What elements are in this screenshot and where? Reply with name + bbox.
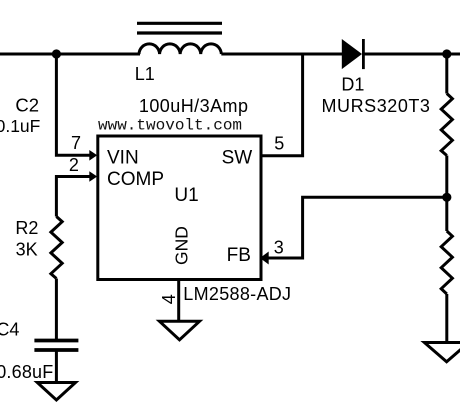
svg-text:0.68uF: 0.68uF: [0, 362, 53, 382]
ground (C4): [37, 383, 75, 401]
svg-text:5: 5: [274, 133, 284, 153]
arrowhead COMP pin 2: [89, 171, 97, 182]
inductor L1 core bars: [137, 23, 222, 33]
svg-text:100uH/3Amp: 100uH/3Amp: [139, 96, 249, 116]
diode D1: [342, 39, 364, 69]
svg-text:SW: SW: [222, 148, 253, 169]
junction dot output node: [442, 49, 451, 58]
svg-text:R2: R2: [15, 218, 38, 238]
wire: D1 cathode to output edge: [363, 53, 460, 56]
ground (pin 4): [160, 321, 200, 340]
resistor upper divider (right): [441, 94, 452, 156]
wire: L1 to D1 anode: [221, 53, 343, 56]
svg-text:0.1uF: 0.1uF: [0, 116, 40, 136]
resistor lower divider (right): [441, 231, 452, 294]
wire: SW pin 5 to top rail: [261, 53, 303, 156]
IC U1 box: [98, 136, 261, 280]
wire: feedback tap to FB pin: [264, 197, 447, 258]
wire: feedback node to lower resistor: [445, 197, 448, 231]
svg-text:FB: FB: [227, 245, 251, 266]
arrowhead FB pin 3: [260, 252, 269, 265]
svg-text:U1: U1: [174, 185, 198, 206]
svg-text:4: 4: [159, 294, 179, 304]
svg-text:3K: 3K: [16, 240, 38, 260]
wire: R2 to C4: [55, 279, 58, 341]
svg-text:www.twovolt.com: www.twovolt.com: [98, 117, 242, 135]
svg-text:GND: GND: [171, 226, 191, 265]
svg-text:2: 2: [69, 155, 79, 175]
capacitor C4: [34, 341, 78, 351]
svg-text:D1: D1: [341, 75, 364, 95]
junction dot feedback node: [442, 193, 451, 202]
wire: input node to VIN pin 7: [56, 54, 91, 155]
ground (right divider): [424, 343, 460, 362]
svg-text:C2: C2: [15, 94, 39, 115]
svg-text:COMP: COMP: [107, 169, 164, 190]
arrowhead VIN pin 7: [89, 150, 97, 161]
svg-text:L1: L1: [135, 64, 155, 84]
wire: output node down to divider: [445, 54, 448, 94]
wire: input rail to L1: [0, 53, 140, 56]
junction dot input node: [52, 49, 61, 58]
svg-text:MURS320T3: MURS320T3: [322, 96, 431, 116]
inductor L1 winding: [139, 44, 221, 54]
svg-text:C4: C4: [0, 320, 19, 340]
wire: R2 to COMP pin 2: [56, 177, 91, 217]
wire: C4 to ground: [55, 350, 58, 383]
wire: resistor to feedback node: [445, 156, 448, 198]
wire: lower resistor to ground: [445, 294, 448, 343]
svg-text:VIN: VIN: [107, 148, 139, 169]
svg-text:7: 7: [71, 133, 81, 153]
svg-text:LM2588-ADJ: LM2588-ADJ: [183, 284, 291, 304]
wire: GND pin 4 to ground: [177, 280, 180, 322]
svg-text:3: 3: [274, 238, 284, 258]
resistor R2: [51, 217, 62, 279]
